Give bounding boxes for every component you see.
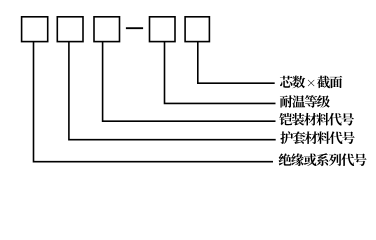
box 3: 铠装材料代号 code box <box>94 17 120 42</box>
label text: 绝缘或系列代号 <box>279 153 367 166</box>
box 4: 耐温等级 code box <box>150 17 176 42</box>
wire from box 1 down and right to label 绝缘或系列代号 <box>34 42 274 162</box>
wire from box 4 down and right to label 耐温等级 <box>165 42 276 104</box>
label text: 铠装材料代号 <box>279 113 354 126</box>
label text: 芯数×截面 <box>280 76 342 89</box>
cable model designation diagram <box>0 0 376 174</box>
dash separator between box 3 and box 4 <box>126 27 143 29</box>
box 5: 芯数×截面 code box <box>185 17 209 42</box>
box 2: 护套材料代号 code box <box>57 17 83 42</box>
label text: 耐温等级 <box>280 95 330 108</box>
wire from box 3 down and right to label 铠装材料代号 <box>103 42 276 121</box>
wire from box 2 down and right to label 护套材料代号 <box>69 42 276 140</box>
label text: 护套材料代号 <box>280 131 354 144</box>
wire from box 5 down and right to label 芯数×截面 <box>198 42 275 83</box>
box 1: 绝缘或系列代号 code box <box>22 17 48 42</box>
